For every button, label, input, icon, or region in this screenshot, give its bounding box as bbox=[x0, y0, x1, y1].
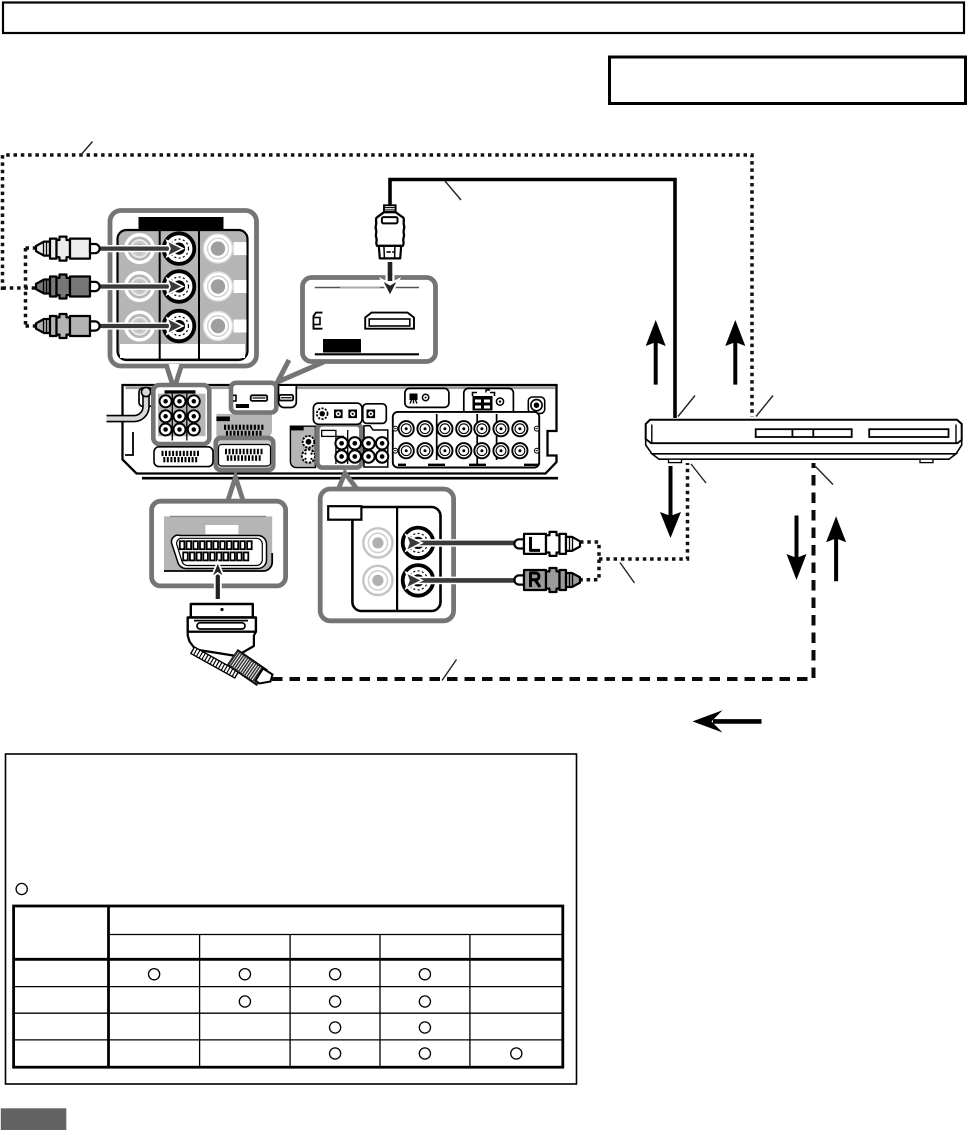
SCART plug hatched edge band bbox=[191, 647, 239, 678]
SCART callout gray panel area bbox=[164, 516, 272, 571]
SCART cable (dashed) bbox=[272, 463, 814, 679]
HDMI plug bbox=[376, 205, 405, 258]
legend circle bbox=[16, 883, 27, 894]
leader tick on SCART cable bbox=[442, 660, 457, 681]
HDMI callout black label bbox=[323, 339, 361, 353]
mains cord anchor tab bbox=[139, 388, 153, 407]
SCART plug bbox=[188, 604, 256, 656]
AV receiver rear panel outline bbox=[123, 385, 557, 474]
intro note box top right bbox=[610, 57, 966, 104]
page title bar bbox=[3, 3, 964, 34]
polarity marks bbox=[393, 426, 539, 453]
digital in panel 1 bbox=[313, 403, 362, 424]
ghost audio jacks bbox=[363, 528, 392, 595]
speaker terminal block bbox=[393, 412, 539, 468]
AV1 SCART region bbox=[216, 414, 272, 437]
component cable 2 bbox=[96, 283, 172, 290]
signal arrow up (component) bbox=[725, 320, 745, 385]
neighbour slot right of HDMI bbox=[279, 386, 297, 408]
speaker binding posts bbox=[399, 421, 528, 458]
signal arrow down (scart) bbox=[787, 516, 807, 581]
HDMI block on panel (highlighted) bbox=[231, 383, 276, 413]
audio cable R bbox=[411, 577, 521, 585]
audio cable (dotted) bbox=[580, 542, 599, 580]
HDMI cable (solid) bbox=[390, 180, 675, 419]
partial neighbour socket bbox=[314, 313, 323, 329]
leader tick on audio cable bbox=[620, 563, 635, 584]
arrow left (signal flow) bbox=[693, 710, 762, 732]
audio jacks right of highlight bbox=[364, 426, 388, 467]
component cable 3 bbox=[96, 322, 172, 329]
component video block on panel (highlighted) bbox=[153, 385, 209, 444]
s-video jack bbox=[302, 450, 315, 463]
signal table bbox=[14, 906, 563, 1067]
AV1 SCART pins bbox=[224, 425, 263, 436]
SCART plug tip bbox=[256, 669, 273, 684]
audio zoom callout box bbox=[338, 473, 359, 491]
panel top gray strip bbox=[126, 387, 556, 390]
component cable branch to plugs bbox=[3, 286, 37, 290]
speaker group dividers bbox=[437, 414, 497, 465]
signal arrow up (scart) bbox=[826, 516, 846, 581]
table circles bbox=[149, 969, 522, 1059]
active audio jacks bbox=[403, 528, 434, 559]
audio cable L bbox=[411, 539, 521, 547]
component video cable (dotted) bbox=[3, 155, 753, 417]
video in gray block bbox=[290, 426, 315, 467]
SCART callout white label bbox=[205, 525, 238, 534]
composite jack bbox=[303, 436, 315, 448]
black label bar bbox=[139, 217, 224, 230]
note box bbox=[6, 754, 577, 1084]
leader ticks at DVD outputs bbox=[678, 396, 695, 417]
component jacks column 3 bbox=[204, 234, 247, 340]
component RCA plug 2 bbox=[36, 275, 100, 299]
component jack panel bbox=[118, 230, 248, 360]
RCA plug R bbox=[514, 568, 580, 592]
DVD tray bbox=[756, 429, 852, 437]
leader tick on dotted cable bbox=[80, 142, 93, 157]
component video zoom callout box bbox=[110, 211, 257, 367]
panel base line bbox=[142, 477, 558, 480]
arrow SCART plug into socket bbox=[211, 562, 224, 600]
component jacks column 1 (ghosted) bbox=[126, 235, 154, 340]
AV SCART socket lower left bbox=[154, 447, 213, 467]
DVD display bbox=[869, 429, 948, 437]
mains power cord bbox=[107, 392, 147, 419]
component cable 1 bbox=[96, 245, 172, 252]
SCART socket large bbox=[171, 535, 266, 568]
DVD player bbox=[646, 420, 962, 463]
audio jack panel bbox=[352, 507, 440, 611]
audio callout label box bbox=[328, 506, 361, 520]
HDMI callout panel edge lines bbox=[315, 287, 419, 289]
component jacks column 2 (connected) bbox=[164, 233, 195, 341]
highlighted SCART pins bbox=[225, 449, 263, 461]
audio in block on panel (highlighted) bbox=[317, 424, 361, 467]
component RCA plug 1 bbox=[36, 237, 100, 261]
signal arrow down (audio) bbox=[660, 466, 681, 538]
antenna panel 1 bbox=[405, 388, 449, 407]
RCA plug L bbox=[514, 532, 580, 556]
HDMI zoom callout box bbox=[278, 358, 335, 383]
highlighted SCART socket bbox=[216, 438, 274, 470]
signal arrow up (HDMI) bbox=[646, 320, 666, 385]
arrow HDMI plug into socket bbox=[381, 262, 398, 297]
callout tail to panel bbox=[166, 364, 182, 389]
SCART zoom callout box bbox=[227, 477, 244, 504]
page number tab bbox=[1, 1108, 67, 1130]
SCART plug cable boot bbox=[228, 651, 267, 685]
HDMI socket icon bbox=[365, 313, 414, 329]
leader tick on HDMI cable bbox=[445, 181, 461, 200]
SCART socket pins bbox=[180, 541, 252, 560]
component RCA plug 3 bbox=[36, 314, 100, 338]
sub woofer jack bbox=[528, 397, 544, 413]
digital in panel 2 bbox=[363, 404, 387, 424]
left inner notch bbox=[125, 432, 133, 455]
antenna panel 2 (FM/AM) bbox=[464, 388, 514, 415]
